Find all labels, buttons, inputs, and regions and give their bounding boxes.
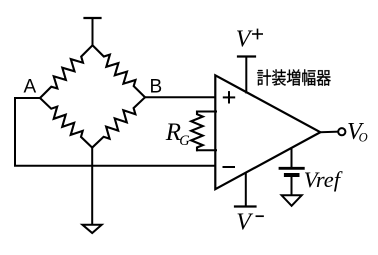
svg-text:G: G	[179, 133, 190, 149]
svg-text:B: B	[150, 76, 163, 97]
svg-text:O: O	[359, 131, 368, 145]
svg-text:Vref: Vref	[304, 167, 343, 192]
svg-text:V: V	[236, 27, 253, 53]
svg-text:V: V	[236, 210, 253, 236]
svg-text:A: A	[24, 77, 37, 98]
